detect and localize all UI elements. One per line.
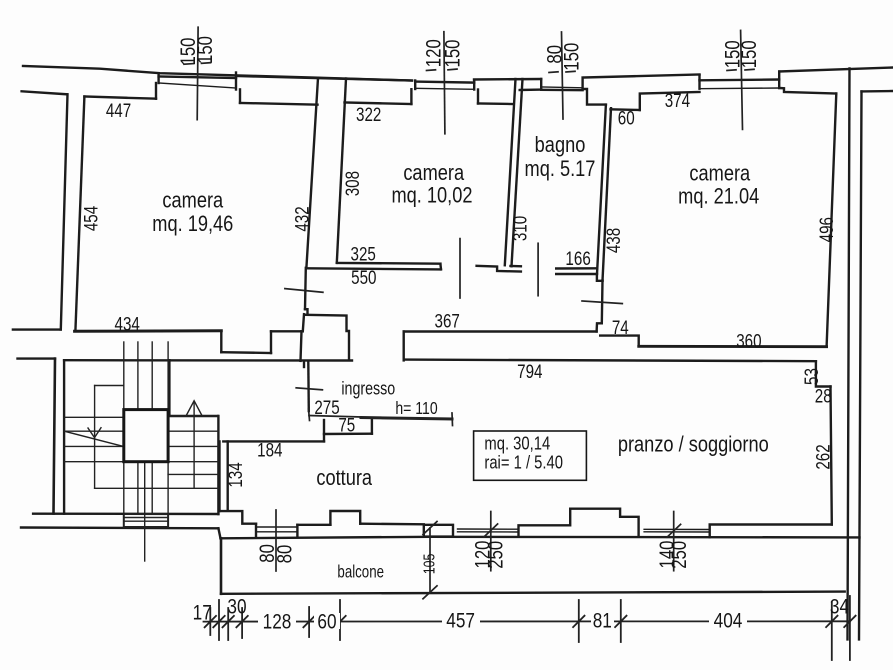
extension verticals	[209, 608, 211, 635]
svg-text:262: 262	[812, 444, 834, 469]
svg-text:ingresso: ingresso	[341, 379, 395, 399]
window dim lines	[196, 27, 199, 120]
svg-text:134: 134	[225, 462, 247, 488]
svg-text:454: 454	[80, 205, 102, 231]
camera 10,02 bottom wall	[337, 262, 441, 265]
svg-text:150: 150	[442, 39, 465, 67]
svg-text:80: 80	[274, 545, 297, 564]
cottura top wall 184	[223, 440, 324, 442]
stair left outer wall	[18, 357, 56, 359]
door tick camera21	[582, 301, 622, 304]
svg-text:75: 75	[338, 414, 355, 436]
cottura bottom left step	[220, 511, 257, 524]
svg-text:53: 53	[800, 368, 822, 385]
svg-text:28: 28	[815, 385, 832, 407]
pranzo 794 wall top	[404, 360, 816, 362]
window W2	[414, 81, 416, 90]
svg-text:60: 60	[317, 611, 336, 634]
svg-text:322: 322	[356, 103, 381, 125]
wall between camera19 and camera10	[306, 78, 318, 268]
bagno top	[520, 88, 542, 91]
svg-text:pranzo / soggiorno: pranzo / soggiorno	[618, 432, 769, 457]
bottom flight treads	[123, 462, 125, 514]
svg-text:325: 325	[351, 243, 376, 265]
camera 19,46 interior	[75, 97, 84, 332]
pier3	[710, 525, 832, 538]
right outer wall double	[848, 69, 850, 640]
top flight treads	[123, 342, 125, 410]
dim 140/250	[673, 512, 675, 571]
camera 21.04 bottom wall	[639, 345, 827, 348]
corridor 367 wall top	[404, 330, 597, 332]
svg-text:275: 275	[314, 396, 339, 418]
svg-text:250: 250	[668, 541, 691, 569]
dim line camera10 door	[459, 239, 461, 298]
ingresso left wall	[307, 362, 310, 411]
svg-text:447: 447	[106, 99, 131, 121]
svg-text:balcone: balcone	[337, 563, 384, 582]
svg-text:camera: camera	[403, 160, 464, 185]
window W4	[700, 78, 780, 81]
svg-text:60: 60	[618, 107, 635, 129]
camera 10,02 interior top	[345, 103, 412, 105]
window W6 120	[458, 528, 519, 530]
dim 80/80	[275, 510, 277, 571]
h=110 line	[309, 416, 361, 418]
bagno right wall with steps	[583, 89, 606, 105]
camera19 bottom wall	[75, 329, 222, 333]
walk line diagonal with down arrow	[66, 432, 122, 446]
svg-text:308: 308	[341, 171, 363, 196]
svg-text:360: 360	[736, 330, 761, 352]
svg-text:81: 81	[593, 610, 612, 633]
svg-text:550: 550	[351, 266, 376, 288]
svg-text:30: 30	[227, 596, 246, 619]
svg-text:mq. 10,02: mq. 10,02	[391, 183, 472, 208]
svg-text:17: 17	[193, 602, 212, 625]
74 step	[600, 336, 639, 347]
dim line bagno door	[537, 243, 539, 295]
svg-text:34: 34	[830, 596, 849, 619]
wall bagno-below continuation to corridor	[597, 281, 603, 332]
svg-text:438: 438	[602, 228, 624, 253]
pranzo right boundary steps	[816, 361, 831, 386]
svg-text:105: 105	[420, 553, 438, 574]
balcone continuous inner line	[221, 537, 431, 539]
svg-text:camera: camera	[689, 161, 750, 186]
door tick ingresso	[296, 388, 322, 390]
svg-text:128: 128	[263, 611, 292, 634]
long center line to below	[144, 462, 146, 561]
bump1	[330, 511, 360, 525]
pier1	[424, 525, 453, 537]
window W7 140	[644, 528, 710, 530]
svg-text:310: 310	[509, 216, 531, 241]
svg-text:457: 457	[446, 610, 475, 633]
left outer wall upper	[22, 91, 67, 94]
svg-text:mq. 30,14: mq. 30,14	[484, 433, 550, 454]
svg-text:rai= 1 / 5.40: rai= 1 / 5.40	[484, 452, 563, 473]
facade outer line	[23, 66, 412, 81]
window W5 80	[255, 524, 257, 537]
svg-text:434: 434	[115, 313, 141, 335]
corridor side lines right of door	[477, 266, 521, 272]
svg-text:367: 367	[435, 310, 460, 332]
dim 120/250	[490, 512, 492, 571]
svg-text:150: 150	[195, 36, 218, 64]
dim 105	[429, 528, 431, 592]
svg-text:h= 110: h= 110	[395, 398, 437, 418]
pier2 with bump2	[519, 509, 639, 537]
svg-text:432: 432	[291, 206, 313, 231]
svg-text:150: 150	[561, 43, 584, 71]
intermediate walk rectangle	[95, 385, 124, 387]
ingresso top wall piece	[306, 315, 349, 360]
label backgrounds on dim chain	[258, 612, 747, 629]
svg-text:184: 184	[257, 439, 283, 461]
right flight treads	[168, 415, 218, 417]
slashes	[205, 616, 216, 627]
left flight treads	[64, 416, 124, 418]
svg-text:bagno: bagno	[535, 132, 586, 157]
svg-text:mq. 21.04: mq. 21.04	[678, 184, 759, 209]
window W1	[157, 73, 159, 83]
wall between camera10 and bagno	[505, 79, 516, 265]
camera 21.04 top	[611, 108, 640, 111]
balcone left and bottom	[218, 528, 220, 538]
svg-text:camera: camera	[162, 188, 223, 213]
cottura left wall (134)	[218, 441, 220, 511]
svg-text:404: 404	[714, 610, 743, 633]
svg-text:794: 794	[517, 360, 543, 382]
window W3	[540, 79, 542, 89]
entrance threshold box	[124, 514, 168, 527]
camera 21.04 right wall	[827, 94, 837, 347]
svg-text:cottura: cottura	[316, 465, 372, 490]
svg-text:mq. 19,46: mq. 19,46	[152, 211, 233, 236]
svg-text:250: 250	[485, 541, 508, 569]
door tick camera19	[285, 289, 323, 293]
svg-text:74: 74	[612, 316, 629, 338]
up arrow walk line	[193, 403, 195, 488]
bagno bottom wall	[556, 267, 597, 270]
stair box	[63, 360, 65, 514]
wall top to bump1	[297, 524, 330, 526]
svg-text:mq. 5.17: mq. 5.17	[525, 156, 596, 181]
svg-text:374: 374	[665, 89, 691, 111]
wall below camera19/10 junction	[304, 268, 307, 309]
svg-text:166: 166	[565, 247, 590, 269]
svg-text:150: 150	[738, 40, 761, 68]
svg-text:496: 496	[816, 217, 838, 242]
